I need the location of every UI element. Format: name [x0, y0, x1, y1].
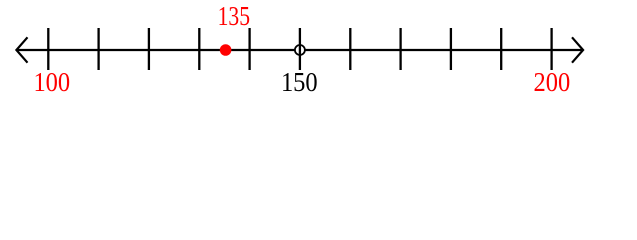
number line diagram [0, 0, 637, 100]
right arrowhead [572, 37, 583, 62]
wire: main axis line [16, 49, 583, 51]
tick 150 [299, 28, 301, 70]
tick 180 [450, 28, 452, 70]
svg-text:100: 100 [33, 67, 70, 98]
left arrowhead [16, 37, 27, 62]
svg-text:150: 150 [281, 67, 318, 98]
red point at 135 [220, 44, 232, 56]
tick 200 [550, 28, 552, 70]
tick 130 [198, 28, 200, 70]
tick 140 [248, 28, 250, 70]
svg-text:135: 135 [218, 2, 250, 32]
svg-text:200: 200 [534, 67, 571, 98]
tick 100 [47, 28, 49, 70]
tick 160 [349, 28, 351, 70]
tick 190 [500, 28, 502, 70]
open circle at 150 [295, 45, 305, 55]
tick 110 [97, 28, 99, 70]
tick 120 [148, 28, 150, 70]
tick 170 [399, 28, 401, 70]
